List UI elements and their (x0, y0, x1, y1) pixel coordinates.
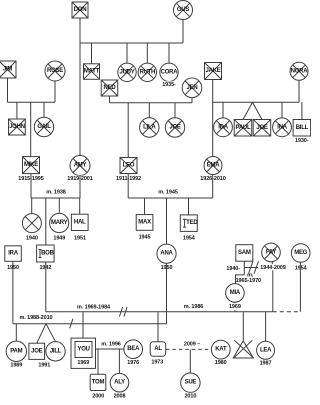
svg-text:JAKE: JAKE (205, 68, 220, 74)
svg-text:LILA: LILA (143, 125, 156, 131)
person BEA (female) (124, 340, 143, 359)
marriage line JAKE-NORA (213, 101, 299, 103)
person TED adopted (male) (180, 215, 198, 232)
label YOU name (77, 347, 89, 353)
svg-text:SUE: SUE (185, 380, 197, 386)
svg-text:BOB: BOB (41, 251, 55, 257)
svg-text:LEO: LEO (123, 163, 135, 169)
wire NORA riser (298, 80, 300, 102)
label BEA 1976 (126, 360, 140, 367)
svg-text:1944-2009: 1944-2009 (260, 265, 285, 271)
person ALY (female) (110, 373, 129, 392)
svg-text:JIM: JIM (3, 67, 13, 73)
wire drop to LEO (long) (127, 103, 129, 158)
marriage line YOU-BEA (96, 348, 124, 350)
svg-text:JOE: JOE (31, 348, 43, 354)
svg-text:m. 1986: m. 1986 (184, 304, 204, 310)
person JUDY (deceased female) (118, 63, 136, 81)
svg-text:LEA: LEA (260, 347, 272, 353)
label SAM 1940- (224, 265, 242, 272)
label MIKE dates (16, 176, 46, 183)
svg-text:AMY: AMY (74, 163, 87, 169)
person TOM (male) (90, 374, 106, 390)
wire LEO riser (127, 173, 129, 198)
wire JEN riser (191, 98, 193, 103)
svg-text:JOHN: JOHN (9, 124, 25, 130)
wire IRA riser to line C (12, 261, 14, 324)
person YOU index (male) (71, 338, 96, 368)
svg-text:GAIL: GAIL (37, 124, 51, 130)
wire drop to MAX (144, 198, 146, 215)
person MIKE (deceased male) (23, 157, 40, 174)
person PAUL (deceased male twin) (234, 120, 252, 137)
svg-text:HAL: HAL (74, 219, 86, 225)
svg-text:MEG: MEG (294, 250, 308, 256)
svg-text:m. 1996: m. 1996 (101, 341, 121, 347)
person NORA (deceased female) (290, 62, 308, 80)
svg-text:MIA: MIA (230, 290, 241, 296)
label YOU 1969 (77, 360, 89, 366)
wire twin drop to JOE (253, 102, 263, 119)
wire twin drop to PAUL (243, 102, 253, 119)
wire drop to AMY (long) (79, 43, 81, 156)
label 2009- (182, 341, 203, 348)
person MEG (female) (291, 244, 310, 263)
person IRA (male) (5, 246, 22, 261)
label MAX 1945 (137, 234, 151, 241)
person MIA (female) (226, 284, 245, 303)
person DON (deceased male) (72, 2, 88, 18)
label m. 1965-1970 line1 (247, 273, 254, 279)
wire AMY riser (79, 176, 81, 198)
person MARY (female) (50, 213, 69, 232)
wire GUS riser (182, 20, 184, 44)
label AMY dates (65, 176, 95, 183)
label HAL 1951 (73, 235, 87, 242)
svg-text:BILL: BILL (296, 125, 309, 131)
marriage line LEO-EMA (128, 197, 213, 199)
svg-text:m. 1938: m. 1938 (46, 189, 66, 195)
person GUS (deceased female) (174, 1, 193, 20)
label ANA 1950 (159, 265, 173, 272)
wire MIKE riser (30, 174, 32, 198)
svg-text:1969: 1969 (77, 360, 89, 366)
label KAT 1980 (214, 360, 228, 367)
person JAKE (deceased male) (205, 63, 222, 80)
svg-text:1973: 1973 (151, 360, 163, 366)
person MATT (deceased male) (84, 64, 100, 80)
svg-text:1940-: 1940- (226, 266, 240, 272)
wire twin drop to JOE5 (37, 324, 46, 344)
person KAT (female) (211, 340, 230, 359)
label ALY 2008 (112, 393, 126, 400)
svg-text:ALY: ALY (114, 380, 125, 386)
svg-text:JOE: JOE (256, 125, 268, 131)
svg-text:YOU: YOU (77, 347, 89, 353)
person EMA (deceased female) (204, 157, 222, 175)
label m. 1938 (46, 189, 66, 195)
label JOE-JILL 1991 (37, 362, 51, 369)
person JOE (deceased male twin) (253, 120, 271, 137)
wire drop to JOE2 (174, 103, 176, 118)
wire FAY link down to line A (272, 270, 274, 312)
person BILL (male) (293, 120, 311, 137)
svg-text:RUTH: RUTH (139, 69, 155, 75)
person RUTH (deceased female) (138, 63, 156, 81)
stillbirth symbol (233, 340, 254, 358)
svg-text:CORA: CORA (161, 69, 179, 75)
svg-text:1935-: 1935- (162, 82, 176, 88)
wire drop to CORA (168, 43, 170, 63)
svg-text:2010: 2010 (184, 393, 196, 399)
label MEG 1954 (294, 265, 308, 272)
svg-text:m. 1988-2010: m. 1988-2010 (19, 315, 52, 321)
wire SAM riser (243, 261, 245, 275)
person INA (deceased female) (273, 118, 292, 137)
person JILL twin (female) (46, 342, 65, 361)
svg-text:BEA: BEA (127, 346, 140, 352)
divorce slashes SAM-FAY (249, 261, 259, 273)
label m. 1988-2010 (19, 315, 52, 321)
svg-text:1969: 1969 (229, 304, 241, 310)
person AL (male) (150, 342, 166, 357)
wire drop to JOHN (16, 102, 18, 119)
marriage line SAM-FAY (244, 267, 272, 269)
wire twin drop to JILL (46, 324, 56, 342)
person LILA (deceased female) (140, 118, 159, 137)
wire drop to PAM (15, 324, 17, 342)
wire drop to MATT (91, 43, 93, 64)
wire ROSE riser (54, 81, 56, 102)
svg-text:MIKE: MIKE (24, 162, 38, 168)
wire drop to MIA (236, 275, 245, 284)
svg-text:JUDY: JUDY (119, 69, 134, 75)
marriage line NED-JEN (110, 102, 193, 104)
label TOM 2000 (91, 393, 105, 400)
person HAL (male) (71, 214, 88, 230)
label PAM 1989 (9, 362, 23, 369)
wire drop to AL (157, 312, 159, 342)
person JIM (deceased male) (0, 61, 16, 78)
svg-text:TOM: TOM (92, 379, 105, 385)
label FAY dates (258, 264, 288, 271)
label m. 1945 (158, 189, 178, 195)
svg-text:MAX: MAX (138, 219, 151, 225)
svg-text:IRA: IRA (8, 251, 19, 257)
svg-text:1965-1970: 1965-1970 (236, 278, 261, 284)
svg-text:ROSE: ROSE (47, 68, 63, 74)
wire drop to MARY (58, 198, 60, 213)
svg-text:NED: NED (104, 85, 117, 91)
person IDA (deceased female) (214, 118, 233, 137)
cohabitation dashed line AL-KAT (166, 348, 212, 350)
label SUE 2010 (183, 393, 197, 400)
wire drop to RUTH (146, 43, 148, 63)
label m. 1965-1970 line2 (236, 278, 261, 284)
marriage line A BOB-ANA-MIA (46, 311, 273, 313)
marriage line MIKE-AMY (31, 197, 80, 199)
person LEO (deceased male) (120, 158, 137, 174)
svg-text:JILL: JILL (50, 348, 62, 354)
person SAM (male) (236, 245, 253, 262)
svg-text:IDA: IDA (218, 124, 229, 130)
svg-text:1954: 1954 (183, 235, 196, 241)
person AMY (deceased female) (70, 156, 90, 176)
label LEO dates (114, 176, 144, 183)
label m. 1986 (184, 304, 204, 310)
person FAY (deceased female) (262, 243, 281, 262)
label LEA 1987 (258, 360, 272, 367)
svg-text:1980: 1980 (215, 360, 227, 366)
wire FAY riser (271, 262, 273, 268)
svg-text:1987: 1987 (260, 361, 272, 367)
wire drop to JUDY (126, 43, 128, 63)
wire drop to ANA (long) (166, 198, 168, 245)
svg-text:AL: AL (154, 346, 162, 352)
svg-text:DON: DON (74, 7, 87, 13)
wire MEG riser to line A (299, 262, 301, 312)
wire drop to IDA (222, 102, 224, 118)
svg-text:1989: 1989 (10, 363, 22, 369)
person NED (deceased male) (101, 80, 118, 96)
person MAX (male) (136, 215, 153, 231)
svg-text:FAY: FAY (266, 249, 277, 255)
label CORA birth year (160, 81, 178, 88)
label AL 1973 (150, 359, 164, 366)
wire drop to LEA (265, 312, 267, 342)
person LEA (female) (257, 341, 275, 359)
svg-text:m. 1969-1984: m. 1969-1984 (77, 304, 111, 310)
marriage line JIM-ROSE (8, 101, 56, 103)
svg-text:SAM: SAM (238, 250, 251, 256)
person JOE second (deceased female) (165, 118, 184, 137)
wire JIM riser (7, 78, 9, 102)
svg-text:INA: INA (277, 124, 288, 130)
svg-text:TED: TED (186, 220, 198, 226)
svg-text:1949: 1949 (53, 235, 65, 241)
svg-text:PAUL: PAUL (236, 125, 251, 131)
label m. 1969-1984 (77, 304, 111, 310)
person unnamed daughter (deceased female) (22, 214, 41, 233)
wire NED riser (109, 96, 111, 103)
wire drop to TED (188, 198, 190, 215)
wire drop to YOU (82, 312, 84, 338)
wire drop to GAIL (43, 102, 45, 117)
svg-text:2009 –: 2009 – (184, 341, 200, 347)
person JEN (deceased female) (182, 78, 202, 98)
wire drop to unnamed daughter (31, 198, 33, 214)
svg-text:1930-: 1930- (295, 138, 309, 144)
person JOHN (deceased male) (9, 119, 26, 135)
separation slash IRA-ANA (70, 319, 73, 329)
person ANA (female) (157, 244, 176, 263)
divorce slashes BOB-ANA (119, 307, 127, 317)
svg-text:EMA: EMA (207, 163, 221, 169)
svg-text:NORA: NORA (291, 68, 309, 74)
label IRA 1950 (6, 265, 20, 272)
svg-text:JOE: JOE (169, 125, 181, 131)
person BOB (male) (37, 245, 55, 262)
svg-text:PAM: PAM (10, 348, 22, 354)
label unnamed 1940 (25, 235, 39, 242)
person ROSE (deceased female) (45, 61, 65, 81)
wire drop to BILL (301, 102, 303, 119)
wire MIA riser to line A (234, 302, 236, 312)
wire ANA riser through to line C (166, 263, 168, 324)
wire drop to BOB (long) (45, 198, 47, 245)
svg-text:1951: 1951 (74, 235, 86, 241)
label m. 1996 (101, 341, 121, 347)
person GAIL (deceased female) (34, 117, 53, 136)
label MARY 1949 (52, 235, 66, 242)
wire EMA riser (212, 175, 214, 199)
svg-text:1945: 1945 (139, 234, 151, 240)
label TED 1954 (182, 235, 196, 242)
wire drop to INA (281, 102, 283, 118)
marriage line DON-GUS (80, 42, 183, 44)
wire BOB riser to line A (45, 262, 47, 312)
svg-text:MATT: MATT (84, 69, 100, 75)
label BILL birth year (293, 138, 311, 145)
svg-text:1940: 1940 (26, 235, 38, 241)
wire drop to stillbirth (242, 312, 244, 341)
svg-text:GUS: GUS (177, 7, 190, 13)
svg-text:2008: 2008 (114, 394, 126, 400)
svg-text:JEN: JEN (187, 85, 198, 91)
svg-text:1954: 1954 (295, 266, 308, 272)
label BOB 1942 (38, 265, 52, 272)
wire drop to HAL (79, 198, 81, 214)
label MIA 1969 (228, 303, 242, 310)
wire drop to TOM (97, 349, 99, 374)
svg-text:MARY: MARY (51, 220, 68, 226)
svg-text:1991: 1991 (38, 363, 50, 369)
svg-text:KAT: KAT (215, 347, 227, 353)
label EMA dates (198, 176, 228, 183)
svg-text:2000: 2000 (92, 394, 104, 400)
cohabitation dashes to MEG (273, 311, 301, 313)
wire DON riser (79, 18, 81, 43)
svg-text:1976: 1976 (127, 360, 139, 366)
wire JAKE drop through to EMA (212, 79, 214, 156)
wire drop to LILA (148, 103, 150, 118)
person PAM (female) (6, 341, 26, 361)
wire drop to ALY (118, 349, 120, 374)
svg-text:ANA: ANA (160, 251, 173, 257)
person CORA (female) (160, 63, 178, 81)
wire drop to MIKE (long) (30, 102, 32, 156)
person JOE fifth-gen twin (male) (29, 343, 45, 359)
wire drop to SUE (189, 349, 191, 373)
person SUE (female) (181, 373, 200, 392)
svg-text:m. 1945: m. 1945 (158, 189, 178, 195)
marriage line C IRA-ANA (13, 323, 167, 325)
